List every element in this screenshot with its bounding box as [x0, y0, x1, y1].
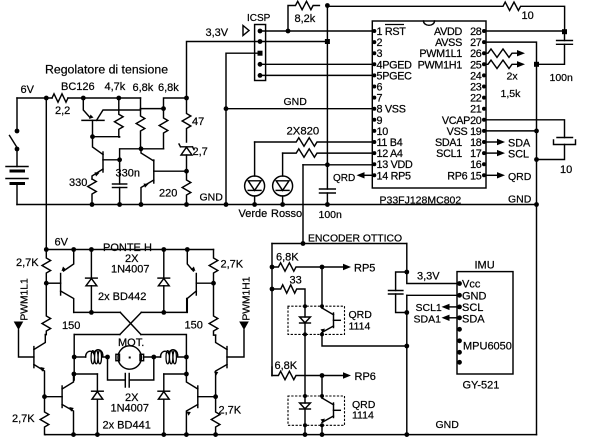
wire left out base: [45, 396, 63, 398]
arrow RP6: [343, 372, 351, 378]
wire icsp pin4 to IC: [260, 63, 372, 65]
svg-text:1,5k: 1,5k: [501, 88, 522, 100]
svg-text:RP5: RP5: [354, 263, 375, 275]
node vcap bottom: [534, 157, 539, 162]
IC pin labels: [377, 25, 482, 183]
inductor left coil: [74, 350, 107, 364]
transistor right PNP BD442: [187, 250, 196, 313]
svg-text:33: 33: [290, 275, 302, 287]
switch S1: [10, 129, 20, 167]
capacitor motor: [108, 357, 154, 387]
wire left mid column: [73, 335, 75, 381]
node rosso gnd: [280, 202, 285, 207]
node Q3 emitter gnd: [139, 202, 144, 207]
svg-text:Regolatore di tensione: Regolatore di tensione: [45, 63, 168, 77]
node mid-6,8k2: [161, 106, 166, 111]
capacitor 330n: [113, 160, 127, 205]
svg-text:IMU: IMU: [475, 260, 495, 272]
arrow pwm1l1 out: [517, 50, 525, 56]
wire right out base: [198, 396, 216, 398]
node avdd tap square: [562, 29, 567, 34]
wire left top row: [74, 311, 121, 313]
arrow qrd right: [497, 172, 505, 178]
wire mid row: [141, 98, 187, 109]
svg-text:Vcc: Vcc: [462, 279, 481, 291]
diode 1N4007 top-left: [86, 250, 98, 313]
motor MOT: [116, 346, 144, 369]
node avss-100n square: [534, 62, 539, 67]
node rail left emitter: [71, 247, 76, 252]
svg-text:RP6 15: RP6 15: [447, 170, 482, 182]
svg-text:SDA1: SDA1: [414, 314, 442, 326]
svg-text:QRD: QRD: [333, 173, 355, 184]
node icsp pin1: [258, 29, 263, 34]
svg-text:3,3V: 3,3V: [206, 27, 229, 39]
diode 1N4007 bottom-left: [92, 374, 104, 435]
node icsp pin5: [258, 73, 263, 78]
node rp6 col: [320, 373, 325, 378]
svg-text:10: 10: [522, 10, 534, 22]
transistor BC126: [82, 98, 141, 137]
node br 2,7K: [213, 432, 218, 437]
svg-text:ENCODER OTTICO: ENCODER OTTICO: [308, 234, 402, 245]
svg-text:2,7: 2,7: [193, 146, 208, 158]
wire qrd2 to rail: [305, 425, 322, 434]
node imu cap bottom: [404, 310, 409, 315]
svg-text:2x: 2x: [507, 71, 519, 83]
svg-text:1114: 1114: [349, 321, 371, 333]
wire right bottom row: [141, 335, 187, 375]
svg-text:2x BD441: 2x BD441: [103, 420, 151, 432]
node rail right diode: [161, 247, 166, 252]
resistor 2,7K top-left: [42, 250, 51, 284]
node qrd2 tr bot: [320, 423, 324, 427]
transistor left PNP BD442: [61, 250, 74, 313]
node qrd2 tr top: [320, 394, 324, 398]
capacitor 100n avdd: [537, 34, 573, 64]
node rail-pontefeed: [44, 96, 49, 101]
qrd2 dotted box: [288, 396, 345, 425]
svg-text:QRD: QRD: [508, 171, 532, 183]
wire left collector row: [74, 373, 98, 375]
node enc 3,3V join: [301, 241, 306, 246]
resistor 4,7k: [115, 98, 124, 137]
phototransistor qrd1: [321, 267, 341, 333]
resistor 220: [182, 171, 191, 204]
svg-text:6,8K: 6,8K: [275, 360, 298, 372]
svg-text:220: 220: [159, 188, 177, 200]
resistor 330: [88, 179, 97, 205]
wire GND row to VSS8: [226, 108, 372, 110]
resistor 820 lower: [283, 149, 373, 157]
node imu 3,3V: [404, 270, 409, 275]
transistor right driver NPN: [214, 335, 227, 397]
wire right collector row: [164, 373, 187, 375]
resistor 6,8K enc1: [272, 263, 322, 271]
capacitor imu: [389, 272, 407, 313]
wire avdd pin28: [486, 30, 565, 32]
svg-text:GY-521: GY-521: [463, 380, 500, 392]
svg-text:100n: 100n: [550, 72, 574, 84]
wire rp6 ext: [322, 375, 343, 377]
svg-text:8,2k: 8,2k: [295, 13, 316, 25]
diode qrd2 led: [300, 396, 311, 425]
node gnd row: [224, 106, 229, 111]
svg-text:SCL1: SCL1: [416, 302, 442, 314]
node right base: [211, 281, 216, 286]
node ponte 6V: [44, 247, 49, 252]
wire rp5 ext: [322, 266, 343, 268]
wire rp6 pin15: [486, 174, 497, 176]
node rp5 col: [320, 265, 325, 270]
svg-text:6,8K: 6,8K: [276, 252, 299, 264]
node motor left: [105, 355, 110, 360]
svg-text:100n: 100n: [319, 209, 343, 221]
wire avss pin27: [486, 42, 537, 204]
node vdd 100n: [325, 162, 330, 167]
resistor 1,5k pwm1l1: [486, 49, 517, 57]
node left mid: [72, 372, 77, 377]
resistor 820 upper: [255, 138, 373, 146]
svg-text:2X820: 2X820: [287, 126, 320, 138]
overline RST: [385, 24, 404, 26]
ic U1 box: [372, 21, 486, 188]
node ic pins right: [482, 29, 486, 33]
wire ponte feed column: [45, 98, 47, 250]
transistor Q3: [141, 149, 187, 205]
arrow RP5: [343, 264, 351, 270]
svg-text:150: 150: [185, 320, 203, 332]
node 330 gnd: [90, 202, 95, 207]
capacitor 10 vcap: [537, 138, 576, 160]
wire right top row: [141, 299, 186, 313]
node verde gnd: [252, 202, 257, 207]
wire Q2 base: [103, 159, 120, 161]
node bc126 base: [90, 134, 95, 139]
node qrd2 tr rail: [320, 432, 325, 437]
resistor 6,8k first: [136, 109, 145, 149]
node 8,2k right: [325, 3, 330, 8]
transistor right out NPN BD441: [186, 374, 197, 435]
IC pin dots: [372, 29, 486, 177]
wire 3,3V to column tap: [260, 41, 327, 43]
wire sda1 pin18: [486, 141, 497, 143]
svg-text:QRD: QRD: [349, 309, 373, 321]
svg-text:1N4007: 1N4007: [111, 264, 150, 276]
node qrd1 emitter join: [404, 344, 409, 349]
svg-text:2x BD442: 2x BD442: [98, 291, 146, 303]
resistor 150 right: [209, 283, 218, 335]
node bl diode: [95, 432, 100, 437]
wire enc2 from column: [271, 367, 273, 376]
svg-text:MPU6050: MPU6050: [463, 341, 512, 353]
svg-text:Verde: Verde: [239, 208, 268, 220]
node qrd1 led top: [303, 304, 307, 308]
LED Rosso: [273, 153, 293, 204]
label PWM1L1 arrow: [14, 322, 24, 331]
svg-text:ICSP: ICSP: [247, 13, 271, 24]
node imu gnd: [457, 293, 462, 298]
svg-text:RP6: RP6: [355, 371, 376, 383]
node qrd1 tr top: [320, 304, 324, 308]
node 330n gnd: [117, 202, 122, 207]
svg-text:1114: 1114: [352, 410, 374, 422]
wire qrd1 led down: [304, 334, 306, 396]
node enc 6,8k1: [270, 265, 275, 270]
resistor 2,2: [52, 94, 68, 102]
svg-text:1N4007: 1N4007: [111, 403, 150, 415]
node bl emitter: [71, 432, 76, 437]
node imu scl: [457, 305, 462, 310]
svg-text:3,3V: 3,3V: [417, 271, 440, 283]
svg-text:SDA: SDA: [462, 314, 485, 326]
node A collector join: [139, 146, 144, 151]
wire pwm1h1 drop: [227, 330, 244, 357]
node imu vcc: [457, 281, 462, 286]
wire enc 3,3V drop: [302, 165, 304, 244]
node br diode: [161, 432, 166, 437]
qrd1 dotted box: [288, 306, 345, 334]
wire scl1 pin17: [486, 152, 497, 154]
resistor 2,7K bottom-right: [211, 397, 220, 435]
node 8,2k tap: [286, 29, 291, 34]
node qrd1 led bot: [303, 332, 307, 336]
connector ICSP box: [255, 25, 266, 81]
node qrd2 led rail: [303, 432, 308, 437]
diode 1N4007 top-right: [158, 250, 170, 313]
svg-text:GND: GND: [462, 291, 487, 303]
node imu sda: [457, 315, 462, 320]
wire node A to 330n corner: [120, 149, 141, 160]
node qrd1 tr bot: [320, 332, 324, 336]
node gnd right rail: [534, 202, 539, 207]
svg-text:47: 47: [192, 116, 204, 128]
svg-text:2,7K: 2,7K: [12, 413, 35, 425]
LED Verde: [245, 142, 265, 205]
resistor 2,7K bottom-left: [40, 397, 49, 435]
ic notch: [424, 21, 435, 25]
wire top 6V rail: [17, 97, 141, 99]
svg-text:2,7K: 2,7K: [16, 257, 39, 269]
wire left base: [46, 282, 60, 284]
wire enc right column: [406, 244, 408, 273]
svg-text:GND: GND: [436, 419, 460, 431]
node left coil: [72, 355, 77, 360]
wire X diagonal 2: [120, 312, 141, 334]
node qrd2 led bot: [303, 423, 307, 427]
wire vss pin19: [486, 130, 537, 132]
svg-text:GND: GND: [284, 96, 308, 108]
wire ponte rail: [46, 249, 213, 251]
node right diode join: [161, 310, 166, 315]
node 3,3V tap square: [325, 39, 330, 44]
node imu p5: [457, 327, 462, 332]
wire VDD row: [303, 164, 372, 166]
node imu p7: [457, 350, 462, 355]
node left diode join: [89, 310, 94, 315]
node imu col rail: [404, 432, 409, 437]
wire vss column to bottom: [536, 205, 538, 435]
resistor 150 left: [42, 283, 51, 335]
capacitor 100n mcu: [320, 165, 336, 205]
wire icsp pin3 to gnd column: [226, 53, 260, 204]
arrow scl: [497, 150, 505, 156]
svg-text:330n: 330n: [116, 168, 140, 180]
resistor 1,5k pwm1h1: [486, 60, 517, 68]
resistor 10 avdd: [327, 2, 564, 32]
node 3,3V-47: [184, 96, 189, 101]
svg-text:SCL: SCL: [462, 302, 483, 314]
wire base row to 4,7k: [93, 136, 120, 138]
diode qrd1 led: [300, 306, 311, 334]
wire encoder left column: [271, 244, 273, 376]
node icsp pin2: [258, 39, 263, 44]
wire vcap pin20: [486, 120, 565, 138]
wire qrd1 emitter out: [322, 334, 407, 346]
node rail-4,7k: [116, 96, 121, 101]
node icsp pin4: [258, 62, 263, 67]
svg-text:2,7K: 2,7K: [219, 405, 242, 417]
label PWM1H1 arrow: [239, 322, 249, 331]
svg-text:SCL: SCL: [508, 149, 529, 161]
wire battery column top: [16, 98, 18, 131]
svg-text:6,8k: 6,8k: [133, 82, 154, 94]
svg-text:2,7K: 2,7K: [221, 259, 244, 271]
svg-text:BC126: BC126: [61, 81, 95, 93]
resistor 33: [272, 285, 305, 306]
resistor 6,8k second: [159, 109, 168, 149]
wire GND rail upper: [17, 204, 537, 206]
svg-text:MOT.: MOT.: [118, 337, 144, 349]
transistor Q2: [92, 137, 103, 179]
node br emitter: [184, 432, 189, 437]
wire icsp pin5 to IC: [260, 74, 372, 76]
node 100n gnd: [325, 202, 330, 207]
wire 6,8k2 bottom to node A: [141, 148, 164, 150]
node right mid374: [184, 372, 189, 377]
wire imu gnd column: [406, 295, 408, 434]
node right coil: [184, 355, 189, 360]
node 220 gnd: [184, 202, 189, 207]
node rail right emitter: [185, 247, 190, 252]
svg-text:6V: 6V: [55, 237, 69, 249]
wire encoder top line: [272, 243, 407, 245]
diode 1N4007 bottom-right: [158, 374, 170, 435]
resistor 2,7K top-right: [209, 250, 218, 284]
svg-text:PWM1L1: PWM1L1: [20, 278, 31, 321]
resistor 8,2k: [288, 1, 319, 31]
node Q3 base / 220: [184, 169, 189, 174]
node motor right: [151, 355, 156, 360]
node rail-bc126: [81, 96, 86, 101]
svg-text:10: 10: [560, 164, 572, 176]
svg-text:2,2: 2,2: [55, 105, 70, 117]
node B 330n top: [117, 157, 122, 162]
svg-text:P33FJ128MC802: P33FJ128MC802: [380, 195, 462, 207]
node vss19: [534, 129, 539, 134]
label QRD arrow pin14: [357, 172, 373, 178]
transistor left out NPN BD441: [62, 374, 74, 435]
transistor left driver NPN: [34, 335, 45, 397]
node imu p8: [457, 360, 462, 365]
svg-text:4,7k: 4,7k: [105, 81, 126, 93]
wire right base: [196, 282, 213, 284]
node left base: [44, 281, 49, 286]
svg-text:GND: GND: [508, 194, 532, 206]
svg-text:150: 150: [62, 320, 80, 332]
node gnd rail: [224, 202, 229, 207]
node ic pins left: [372, 29, 376, 33]
wire 3,3V column: [326, 6, 328, 165]
node right drive: [213, 394, 218, 399]
svg-text:330: 330: [69, 177, 87, 189]
wire icsp pin1 to IC RST: [260, 30, 372, 32]
wire 3,3V riser: [187, 42, 261, 99]
node imu p6: [457, 338, 462, 343]
arrow scl1 imu: [442, 304, 460, 310]
node enc 33: [270, 287, 275, 292]
marker triangle 3,3V: [243, 26, 249, 36]
node rail left diode: [89, 247, 94, 252]
svg-text:14 RP5: 14 RP5: [377, 170, 412, 182]
wire pwm1l1 drop: [19, 330, 34, 357]
resistor 47: [182, 98, 191, 142]
svg-text:Rosso: Rosso: [271, 208, 302, 220]
wire rail jog down: [140, 98, 142, 109]
svg-text:6,8k: 6,8k: [158, 82, 179, 94]
wire gnd row imu: [407, 294, 460, 296]
wire to Vcc: [407, 272, 460, 284]
arrow pwm1h1 out: [517, 61, 525, 67]
wire left bottom row: [74, 334, 120, 336]
wire bottom rail: [45, 434, 536, 436]
wire X diagonal 1: [120, 312, 141, 334]
svg-text:PWM1H1: PWM1H1: [242, 276, 253, 320]
svg-text:GND: GND: [200, 192, 224, 204]
arrow sda: [497, 139, 505, 145]
node left drive: [42, 394, 47, 399]
inductor right coil: [144, 350, 187, 364]
battery B1 6V: [6, 167, 28, 205]
svg-text:6V: 6V: [21, 84, 35, 96]
node qrd2 led top: [303, 394, 307, 398]
zener 2,7: [179, 144, 194, 171]
phototransistor qrd2: [321, 376, 341, 424]
imu box GY-521: [457, 272, 513, 374]
arrow sda1 imu: [442, 315, 460, 321]
resistor 6,8K enc2: [272, 371, 322, 379]
node icsp pin3 square: [258, 51, 263, 56]
